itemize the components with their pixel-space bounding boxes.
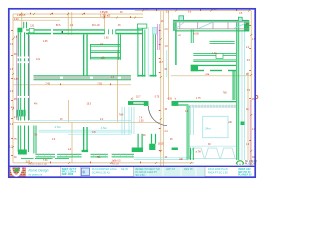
dimension line interior vertical — [117, 50, 119, 122]
title block separators — [61, 167, 205, 177]
cyan terrace horizontals — [39, 129, 131, 131]
svg-text:FAZA PT SC 1:50: FAZA PT SC 1:50 — [208, 171, 228, 174]
svg-text:SCARA 1:50 A3: SCARA 1:50 A3 — [92, 171, 110, 174]
dimension line lower horizontal — [13, 121, 160, 123]
white breaks in left wall — [17, 57, 30, 98]
svg-text:0.75: 0.75 — [155, 97, 160, 99]
svg-text:15.7: 15.7 — [136, 97, 141, 99]
cyan detail lines group — [30, 27, 244, 160]
cyan vertical mid spine — [147, 27, 149, 77]
svg-text:PLANSA 02: PLANSA 02 — [238, 174, 252, 177]
svg-text:4.5m: 4.5m — [55, 125, 62, 129]
dimension line lower left vertical — [71, 122, 73, 163]
blue stamp — [82, 168, 90, 176]
wall left vertical above — [23, 22, 24, 29]
top-right left wall vertical — [175, 20, 176, 65]
terrace band bottom lines — [36, 154, 56, 155]
cyan room labels — [55, 125, 108, 130]
wall top-left band lower — [26, 33, 51, 35]
svg-text:DES 05: DES 05 — [184, 168, 193, 171]
svg-text:7.45: 7.45 — [45, 84, 50, 86]
svg-text:2.40: 2.40 — [14, 19, 19, 21]
bedroom top wall — [172, 101, 237, 102]
dimension line right vertical 2 — [247, 72, 249, 160]
bathroom fixture boxes — [241, 122, 245, 126]
bottom-center blocks — [132, 148, 143, 153]
logo green leaf — [14, 168, 19, 173]
svg-text:10.5: 10.5 — [87, 104, 92, 106]
wall vertical inner right — [233, 71, 234, 100]
svg-text:1.20 3.5: 1.20 3.5 — [17, 15, 26, 17]
dimension verticals above top wall — [67, 12, 69, 35]
wall vertical bottom-left — [33, 126, 34, 154]
magenta lines — [17, 22, 251, 166]
svg-text:str proiect nr: str proiect nr — [29, 173, 43, 176]
top-right wall window band — [175, 21, 249, 29]
curtain scallops — [189, 146, 237, 158]
dimension line mid left horizontal — [13, 84, 131, 86]
dimension line right border vertical — [250, 11, 252, 166]
wall center-left vertical lower — [83, 127, 84, 150]
dimension line room vertical — [68, 100, 70, 122]
corner block bottom-left — [18, 150, 27, 155]
door arc — [148, 106, 167, 126]
svg-text:7b/9: 7b/9 — [119, 115, 124, 117]
green line bottom step — [21, 157, 69, 159]
top-right room top line — [173, 20, 249, 22]
dimension line bottom horizontal — [13, 162, 194, 164]
svg-text:1.20 a5: 1.20 a5 — [100, 14, 110, 18]
wall center-left vertical upper — [83, 34, 84, 76]
wall top-left band upper — [26, 29, 51, 30]
protruding columns top-right — [179, 16, 184, 21]
svg-text:1a5b 0.5: 1a5b 0.5 — [112, 161, 122, 163]
svg-text:16.35: 16.35 — [158, 144, 164, 146]
top-right room inner line — [175, 30, 249, 31]
dimension lines group — [13, 11, 251, 166]
cyan bedroom furniture verticals — [190, 108, 192, 135]
svg-text:7.05: 7.05 — [97, 84, 102, 86]
bed rectangle bedroom — [203, 116, 228, 137]
svg-text:©: © — [83, 170, 86, 174]
interior walls top-center — [90, 43, 120, 46]
spine verticals — [137, 24, 138, 77]
title text rows — [29, 168, 253, 177]
svg-text:Nome Design: Nome Design — [29, 169, 49, 173]
svg-text:16.7: 16.7 — [159, 62, 164, 64]
hatch band bedroom top — [189, 105, 237, 108]
kitchen counters — [210, 40, 235, 43]
interior vertical top-center — [118, 34, 119, 60]
svg-text:90 1.20: 90 1.20 — [92, 25, 100, 27]
svg-text:1.60: 1.60 — [104, 38, 109, 40]
cyan vertical right pair — [241, 30, 243, 160]
main border frame — [9, 9, 255, 177]
svg-text:4.05: 4.05 — [43, 41, 48, 43]
top-right room right wall pair — [236, 21, 237, 160]
cyan vertical center — [166, 50, 168, 77]
walls: green — [16, 20, 249, 160]
svg-text:1.20: 1.20 — [212, 53, 217, 55]
dimension line center vertical 2 — [168, 11, 170, 100]
svg-text:50.5: 50.5 — [56, 25, 61, 27]
window diagonals — [176, 23, 185, 29]
cyan block spine — [153, 28, 158, 35]
dimension line left vertical — [12, 14, 14, 163]
interior vertical top-right room — [190, 30, 193, 44]
svg-text:SC 1:50 A3: SC 1:50 A3 — [245, 160, 257, 163]
dimension line small vertical top-left — [21, 12, 23, 28]
top-right left cap — [173, 20, 175, 31]
cyan room edge line — [30, 120, 131, 122]
red tick marks along dimension lines — [11, 9, 251, 163]
wall left vertical lines lower — [18, 126, 19, 153]
svg-text:BNF 2008: BNF 2008 — [62, 173, 74, 176]
dimension line top 1 — [13, 13, 143, 15]
red dimension texts — [9, 9, 256, 166]
svg-text:+0.00: +0.00 — [193, 34, 200, 36]
title block top line — [8, 165, 255, 167]
kitchen small box — [216, 54, 223, 59]
cyan corridor verticals — [121, 107, 123, 134]
svg-text:a 7/8: a 7/8 — [196, 152, 202, 154]
top-right bottom wall — [191, 65, 236, 66]
stair block treads — [18, 110, 23, 117]
svg-text:4.0 1.0: 4.0 1.0 — [112, 164, 120, 166]
svg-text:PL 02 CAS: PL 02 CAS — [245, 162, 257, 165]
svg-text:1.05: 1.05 — [139, 121, 144, 123]
svg-text:DE 05: DE 05 — [121, 168, 129, 171]
dimension line top 3 — [13, 19, 60, 21]
svg-text:4%: 4% — [34, 104, 37, 106]
annotation above title right dark — [245, 160, 257, 166]
top-right right cap block — [244, 20, 249, 31]
window box top-left — [29, 28, 34, 33]
window dividers top wall — [103, 29, 106, 34]
svg-text:SC 1:50: SC 1:50 — [136, 174, 146, 177]
bedroom left wall pair — [187, 106, 188, 160]
dimension line center vertical 1 — [160, 11, 162, 166]
logo brick background — [10, 167, 26, 176]
house icon green arch — [236, 161, 243, 164]
bedroom curtain wall verticals — [190, 148, 191, 160]
dimension line mid right horizontal — [171, 75, 251, 77]
svg-text:4.5m: 4.5m — [101, 126, 108, 130]
svg-text:3.55: 3.55 — [14, 79, 19, 81]
dimension slash ticks — [12, 10, 252, 164]
title block cyan wash — [134, 167, 205, 176]
hatch band corridor — [34, 76, 132, 80]
svg-text:24m: 24m — [205, 127, 211, 131]
svg-text:1.75: 1.75 — [196, 98, 201, 100]
spine bottom caps — [137, 75, 145, 77]
cyan bottom horizontals — [134, 157, 188, 159]
hall band left — [128, 101, 148, 102]
red circle marker — [255, 96, 258, 99]
column top-left — [17, 28, 22, 33]
svg-text:4.05: 4.05 — [167, 99, 172, 101]
door hinge mark — [62, 31, 63, 33]
dimension line top right — [135, 10, 251, 12]
wall left vertical lines — [18, 32, 19, 120]
stair block — [16, 110, 26, 117]
logo white swoosh — [11, 168, 21, 176]
dimension line top 2 — [13, 17, 143, 19]
page background — [0, 0, 265, 187]
bottom-center vertical pairs — [138, 134, 139, 148]
dimension line center vertical 1b — [162, 11, 164, 166]
terrace band hatch ticks — [38, 154, 134, 158]
svg-text:ARH ST: ARH ST — [166, 168, 176, 171]
svg-text:IS 03 1.50 2.30: IS 03 1.50 2.30 — [28, 162, 47, 166]
